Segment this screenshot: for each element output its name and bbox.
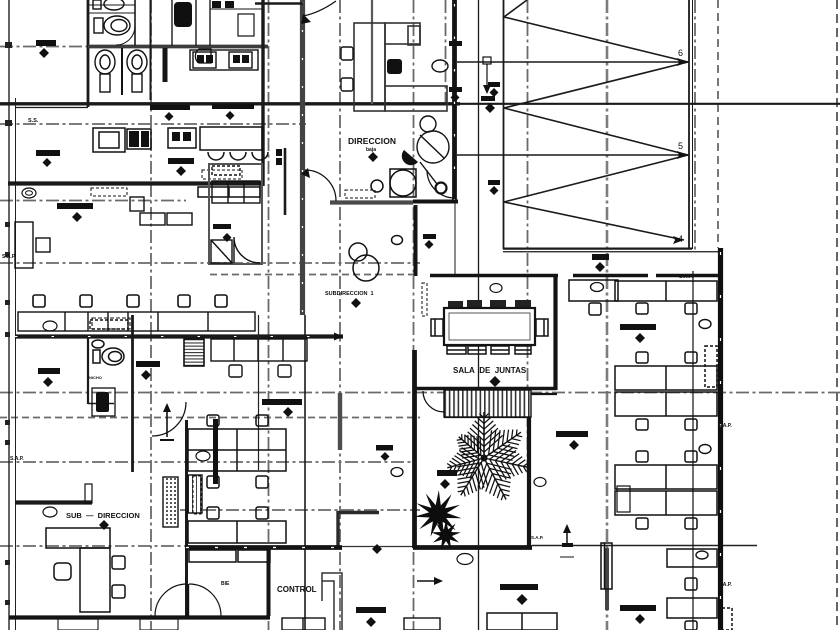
right labels bbox=[620, 324, 656, 330]
water heater WH bbox=[174, 2, 192, 27]
stair door arc + arrow bbox=[152, 402, 186, 436]
right column small cabinets x 611-630 bbox=[617, 486, 630, 512]
toilet lower stall bbox=[94, 16, 135, 45]
bottom desks bbox=[487, 613, 557, 630]
reception counter band bbox=[18, 312, 255, 331]
lamp ellipse bbox=[22, 188, 36, 198]
double doors bbox=[155, 584, 187, 616]
storage shelves bbox=[163, 475, 202, 527]
horizontal arrow bbox=[417, 580, 437, 582]
counter units with stoves bbox=[190, 50, 258, 70]
page border left bbox=[9, 0, 16, 630]
bar stools arcs bbox=[208, 152, 268, 160]
circles pair bbox=[349, 236, 403, 282]
svg-text:NICHO: NICHO bbox=[89, 375, 102, 380]
marker x=600,y=258 bbox=[592, 254, 609, 260]
svg-text:S.A.P.: S.A.P. bbox=[531, 535, 543, 540]
WC room mid-left bbox=[88, 315, 133, 472]
right office desks bbox=[601, 281, 732, 630]
couch room label bbox=[213, 224, 231, 229]
desk U bbox=[354, 23, 447, 111]
trabajo social label bbox=[212, 104, 254, 120]
bottom middle room bbox=[532, 545, 757, 547]
upper-left bathrooms walls bbox=[15, 0, 268, 108]
partition x=372 top bbox=[371, 0, 373, 104]
north arrow mid bbox=[562, 543, 573, 547]
couch room bbox=[209, 164, 262, 264]
AREA TRAB 2 label bbox=[57, 203, 93, 209]
credenza dashed bbox=[91, 188, 127, 196]
svg-text:S.S.: S.S. bbox=[28, 118, 39, 124]
bushes bbox=[414, 490, 462, 537]
svg-text:SALA DE JUNTAS: SALA DE JUNTAS bbox=[453, 366, 527, 375]
svg-text:baja: baja bbox=[366, 147, 376, 153]
vestibulo label bbox=[356, 607, 386, 613]
desk cluster mid bbox=[188, 415, 286, 562]
label S.S. upper-left bbox=[36, 40, 56, 58]
CONTROL area walls bbox=[186, 545, 342, 550]
wall y=336 left bbox=[15, 334, 343, 338]
desk row below wall y=336 bbox=[211, 339, 307, 377]
sub gere 7 label bbox=[262, 399, 302, 405]
toilet upper stall bbox=[93, 0, 124, 10]
stairs small bbox=[184, 339, 204, 366]
shower bbox=[92, 388, 115, 416]
conference chairs top bbox=[448, 300, 531, 309]
S.A.P. labels right of patio bbox=[534, 478, 546, 487]
palm tree bbox=[447, 412, 529, 500]
marker pair left of zigzag bbox=[488, 82, 500, 87]
main long wall y=104 bbox=[0, 102, 840, 105]
corridor wall x=302 bbox=[300, 0, 305, 315]
svg-text:W: W bbox=[178, 8, 184, 14]
zigzag ramp bbox=[457, 0, 723, 252]
partition pipes bbox=[163, 48, 168, 82]
svg-text:SUB — DIRECCION: SUB — DIRECCION bbox=[66, 511, 140, 520]
door arc direccion lower bbox=[427, 170, 455, 198]
top wall segment + door arc (direccion) bbox=[255, 2, 303, 5]
corridor verticals bbox=[478, 0, 480, 630]
partition x=258 bbox=[258, 315, 260, 470]
svg-text:S.A.P.: S.A.P. bbox=[679, 274, 693, 280]
area secre 9 label bbox=[500, 584, 538, 590]
marker x=430,y=238 bbox=[423, 234, 436, 239]
label left bbox=[38, 368, 60, 374]
desks bottom center bbox=[282, 618, 440, 630]
side chairs bbox=[431, 319, 548, 336]
desk band left part bbox=[569, 280, 618, 315]
svg-text:M: M bbox=[99, 396, 103, 402]
control counter bbox=[322, 573, 342, 630]
control room upper-L wall bbox=[337, 511, 379, 515]
area secre 3 label bbox=[556, 431, 588, 437]
round table bbox=[417, 116, 449, 163]
kitchen fixtures bbox=[93, 127, 262, 152]
label right of wc bbox=[136, 361, 160, 367]
label near corridor bbox=[376, 445, 393, 451]
door arc subdir1 top bbox=[305, 170, 336, 201]
SUBDIRECCION1 round table w/ square bbox=[371, 169, 416, 197]
counter 2 bbox=[198, 187, 260, 197]
tree label bbox=[437, 470, 457, 476]
svg-text:BIE: BIE bbox=[221, 581, 230, 587]
svg-text:S.A.P.: S.A.P. bbox=[718, 423, 732, 429]
conference table bbox=[444, 308, 535, 345]
svg-text:4: 4 bbox=[678, 234, 683, 244]
svg-text:6: 6 bbox=[678, 48, 683, 58]
markers near wall x=455 bbox=[449, 41, 462, 46]
cocina label bbox=[168, 158, 194, 176]
level marker near x=488 bbox=[483, 57, 491, 64]
SUB-DIRECCION room bbox=[15, 500, 92, 504]
kitchen walls bbox=[8, 0, 285, 215]
bottom-left desks bbox=[58, 619, 178, 630]
urinal bbox=[195, 49, 211, 63]
desks below wall y=183 bbox=[130, 197, 192, 225]
svg-text:5: 5 bbox=[678, 141, 683, 151]
waiting chairs row bbox=[33, 295, 227, 307]
right wing walls bbox=[718, 248, 723, 630]
SALA DE JUNTAS bbox=[553, 275, 557, 390]
lavatories bbox=[95, 48, 147, 95]
direccion walls bbox=[452, 0, 457, 203]
svg-text:H: H bbox=[179, 16, 183, 22]
svg-text:CONTROL: CONTROL bbox=[277, 585, 317, 594]
bodega label bbox=[36, 150, 60, 167]
patio walls bbox=[412, 350, 417, 548]
corridor wall stub x=340 bbox=[338, 393, 342, 450]
vestidor label bbox=[150, 105, 190, 121]
svg-text:S.A.P.: S.A.P. bbox=[10, 456, 24, 462]
chairs bbox=[341, 47, 448, 91]
border tick marks bbox=[5, 42, 12, 605]
svg-text:S.A.P.: S.A.P. bbox=[718, 582, 732, 588]
svg-text:S.A.P.: S.A.P. bbox=[2, 254, 16, 260]
stairs hatch big bbox=[414, 387, 556, 391]
corner column + brace bbox=[436, 183, 447, 194]
bottom chairs bbox=[447, 346, 531, 354]
svg-text:SUBDIRECCION 1: SUBDIRECCION 1 bbox=[325, 291, 374, 297]
dashed tray bbox=[202, 170, 242, 179]
top wall fixtures x 210-263 bbox=[212, 1, 234, 8]
wall y=275 right bbox=[420, 274, 723, 277]
svg-text:DIRECCION: DIRECCION bbox=[348, 136, 396, 146]
desk left room bbox=[15, 222, 50, 268]
